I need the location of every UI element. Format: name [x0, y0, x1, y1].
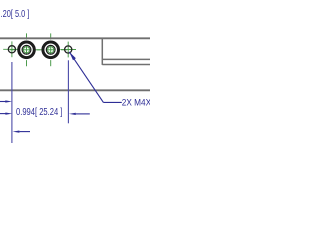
part bottom edge — [0, 89, 152, 91]
extension line left — [11, 62, 13, 143]
center mark counterbore C1 — [10, 33, 43, 66]
leader to hole 2 — [69, 52, 122, 103]
center mark hole 2 — [60, 42, 76, 58]
slot upper edge — [102, 58, 152, 60]
hole 1 (tapped M4) — [8, 46, 15, 53]
dimension arrow lower-left — [13, 130, 31, 132]
dim arrows 0.994 — [0, 112, 90, 115]
svg-text:0.994[ 25.24 ]: 0.994[ 25.24 ] — [16, 107, 63, 118]
counterbore C2 — [43, 42, 59, 58]
center mark hole 1 — [3, 41, 19, 57]
slot lower edge — [102, 64, 152, 66]
hole 2 (tapped M4) — [65, 46, 72, 53]
dimension arrow upper-left — [0, 100, 12, 102]
part top edge — [0, 37, 152, 39]
center mark counterbore C2 — [34, 33, 67, 66]
extension line right — [67, 60, 69, 123]
counterbore C1 — [19, 42, 35, 58]
svg-text:.20[ 5.0 ]: .20[ 5.0 ] — [1, 9, 30, 20]
step vertical edge — [101, 38, 103, 65]
svg-text:2X M4X0.7: 2X M4X0.7 — [122, 98, 150, 108]
